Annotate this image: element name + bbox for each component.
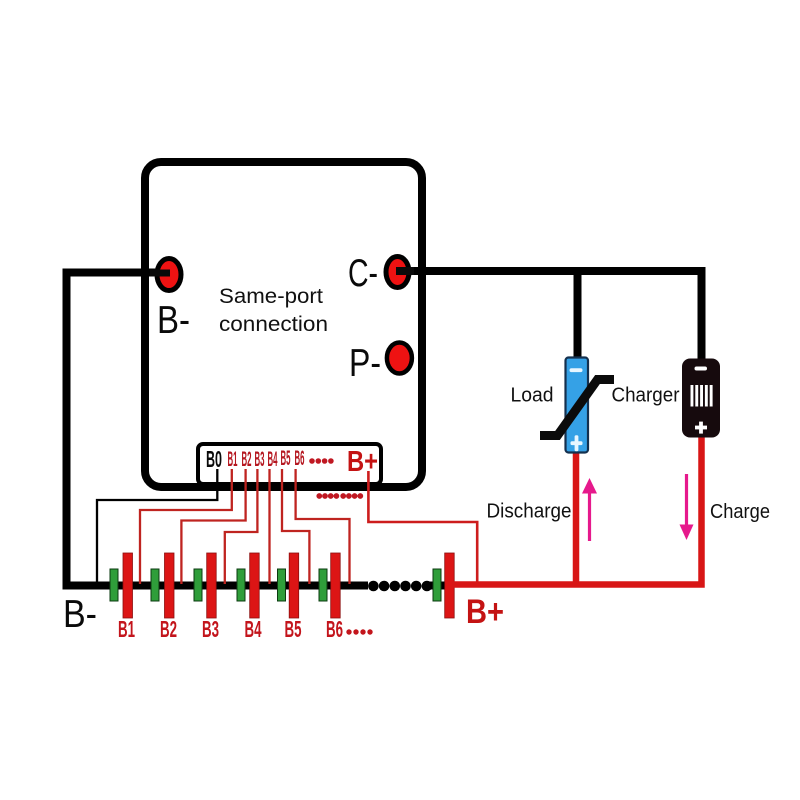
svg-text:B6: B6 — [295, 447, 305, 470]
wire sense B4 — [268, 469, 270, 584]
wire charger negative drop — [698, 267, 706, 362]
terminal P- — [387, 343, 412, 374]
cell B2 negative plate — [151, 569, 159, 601]
cell B2 positive plate — [165, 553, 175, 618]
svg-text:Load: Load — [511, 384, 554, 407]
wire load negative drop — [574, 271, 582, 361]
svg-text:B0: B0 — [206, 446, 222, 472]
svg-text:P-: P- — [349, 342, 381, 385]
wire stub into terminal B- — [150, 270, 170, 277]
svg-text:C-: C- — [348, 252, 378, 295]
svg-text:B2: B2 — [242, 448, 252, 471]
svg-text:B-: B- — [157, 299, 190, 342]
wire B- (terminal B- to battery negative bus) — [67, 273, 369, 586]
cell B1 negative plate — [110, 569, 118, 601]
svg-text:Same-port: Same-port — [219, 285, 323, 308]
wire C- (terminal C- to load/charger negative) — [395, 267, 705, 275]
svg-text:B6: B6 — [326, 616, 343, 642]
cell Bn negative plate (last) — [433, 569, 441, 601]
wire sense B2 — [181, 469, 245, 584]
cell B3 negative plate — [194, 569, 202, 601]
cell B6 positive plate — [331, 553, 341, 618]
cell B5 positive plate — [289, 553, 299, 618]
wire sense B3 — [225, 469, 258, 584]
wire battery bus right segment — [427, 582, 453, 590]
wire ellipsis dots (red row under board) — [316, 493, 363, 499]
svg-text:Charge: Charge — [710, 500, 770, 523]
switch SW1 (slash over load) — [540, 380, 614, 436]
wire sense B+ — [368, 471, 477, 582]
cell B1 positive plate — [123, 553, 133, 618]
svg-text:Discharge: Discharge — [487, 500, 572, 523]
arrow charge (down) — [680, 474, 694, 540]
wire stub into terminal C- — [396, 267, 414, 275]
svg-text:B5: B5 — [285, 616, 302, 642]
wire sense B6 — [296, 469, 350, 584]
svg-text:connection: connection — [219, 313, 328, 336]
pin ellipsis dots — [309, 458, 334, 464]
svg-text:B+: B+ — [466, 593, 504, 631]
svg-text:B3: B3 — [202, 616, 219, 642]
svg-text:B1: B1 — [228, 448, 238, 471]
wire sense B1 — [140, 469, 232, 584]
svg-text:B4: B4 — [245, 616, 262, 642]
bus ellipsis dots (black) — [368, 581, 432, 592]
cell label ellipsis dots — [346, 629, 372, 634]
BMS board U1 — [145, 162, 422, 487]
cell Bn positive plate (last) — [445, 553, 455, 618]
wire sense B0 — [97, 469, 217, 584]
svg-text:B3: B3 — [255, 448, 265, 471]
terminal B- — [157, 259, 181, 291]
load LD1 (blue battery symbol) — [566, 358, 589, 453]
cell B4 positive plate — [250, 553, 260, 618]
svg-text:B2: B2 — [160, 616, 177, 642]
wire load positive drop — [573, 450, 580, 585]
cell B3 positive plate — [207, 553, 217, 618]
svg-text:B4: B4 — [268, 448, 278, 471]
cell B5 negative plate — [278, 569, 286, 601]
terminal C- — [386, 257, 409, 288]
cell B4 negative plate — [237, 569, 245, 601]
svg-text:B5: B5 — [281, 447, 291, 470]
svg-text:Charger: Charger — [612, 384, 680, 407]
charger CH1 (black battery symbol) — [682, 359, 720, 438]
wire B+ bus (positive, to load and charger) — [452, 436, 702, 585]
svg-text:B1: B1 — [118, 616, 135, 642]
cell B6 negative plate — [319, 569, 327, 601]
wire sense B5 — [282, 469, 309, 584]
svg-text:B-: B- — [63, 593, 97, 636]
arrow discharge (up) — [582, 478, 597, 541]
connector strip J1 — [198, 444, 381, 484]
svg-text:B+: B+ — [347, 446, 378, 478]
